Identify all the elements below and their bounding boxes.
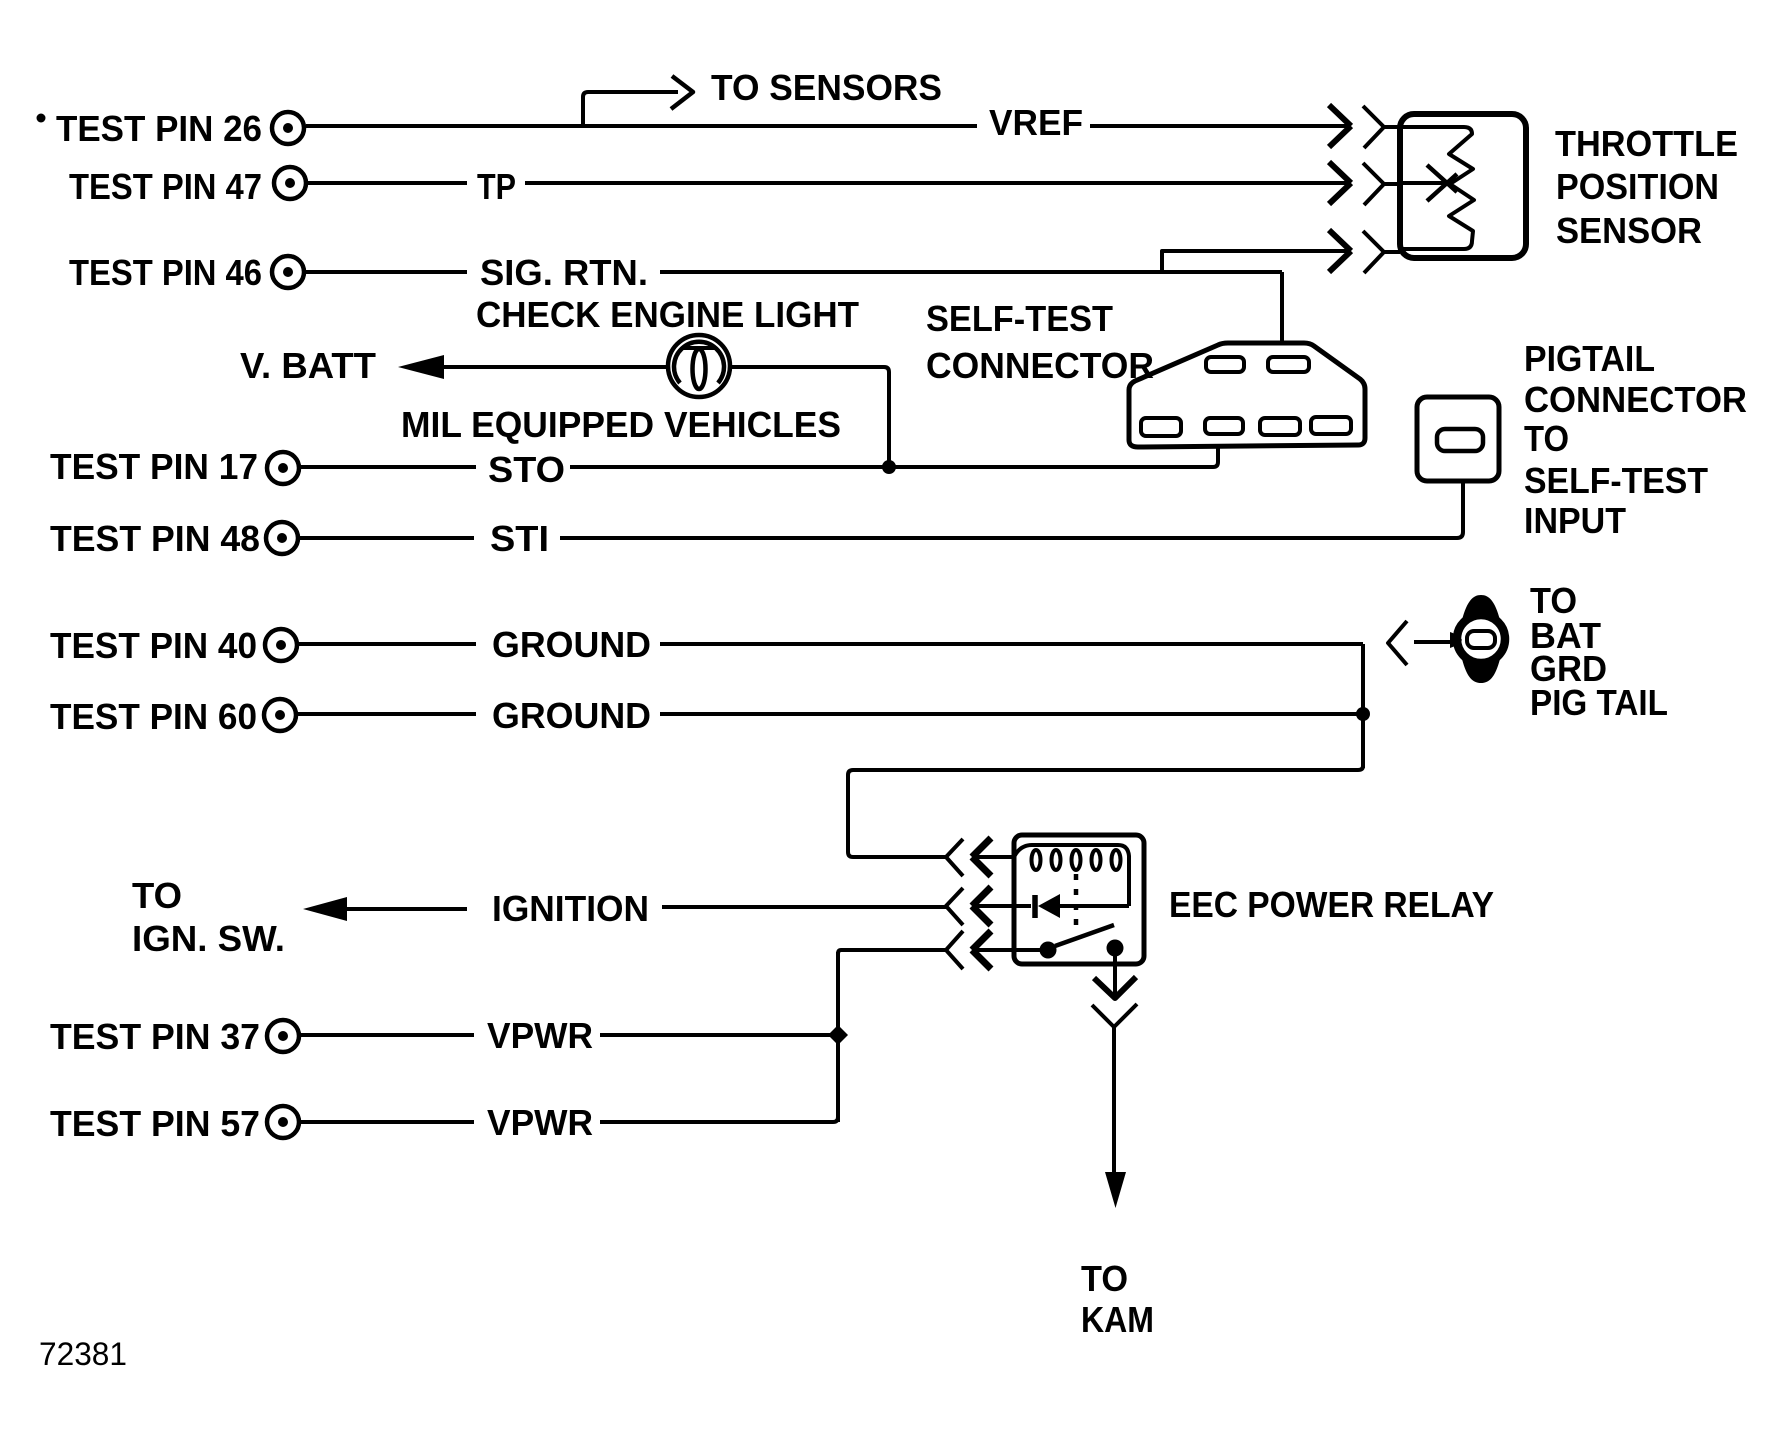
label STO <box>488 449 565 490</box>
svg-text:STO: STO <box>488 449 565 490</box>
svg-text:IGNITION: IGNITION <box>492 888 649 929</box>
wire TP right segment <box>525 181 1349 185</box>
junction STO / MIL <box>882 460 896 474</box>
svg-text:SELF-TEST: SELF-TEST <box>926 298 1113 339</box>
svg-text:CHECK ENGINE LIGHT: CHECK ENGINE LIGHT <box>476 294 859 335</box>
label SELF-TEST CONNECTOR <box>926 298 1154 386</box>
svg-text:TO: TO <box>1081 1258 1128 1299</box>
svg-text:PIGTAIL: PIGTAIL <box>1524 338 1655 379</box>
relay coil <box>1014 845 1129 906</box>
wire VPWR to relay switch <box>838 950 946 954</box>
junction ground bus <box>1356 707 1370 721</box>
wire SIG RTN left segment <box>306 270 467 274</box>
wire VPWR bus vertical <box>836 952 840 1122</box>
wire ground bus to relay coil <box>848 766 1363 857</box>
figure number 72381 <box>39 1336 127 1372</box>
svg-text:TEST PIN 17: TEST PIN 17 <box>50 446 258 487</box>
label VPWR <box>487 1015 593 1056</box>
wire lamp to STO junction <box>730 367 889 462</box>
label MIL EQUIPPED VEHICLES <box>401 404 841 445</box>
wire GROUND 40 right segment <box>660 642 1363 646</box>
test point TEST PIN 60 <box>50 696 296 737</box>
svg-text:TO: TO <box>132 875 182 916</box>
wire GROUND 60 right segment <box>660 712 1360 716</box>
test point TEST PIN 47 <box>69 166 306 207</box>
wire VPWR 37 right segment <box>600 1033 834 1037</box>
wire STI right segment <box>560 483 1463 538</box>
relay ignition connector <box>946 887 1031 925</box>
wire VPWR 57 left segment <box>301 1120 474 1124</box>
svg-text:TEST PIN 57: TEST PIN 57 <box>50 1103 260 1144</box>
label STI <box>490 518 549 559</box>
wire GROUND 60 left segment <box>298 712 476 716</box>
wire down to self-test connector <box>1280 272 1284 344</box>
relay switch <box>1040 925 1124 959</box>
test point TEST PIN 46 <box>69 252 304 293</box>
wire ground bus vertical <box>1361 644 1365 768</box>
label TO IGN. SW. <box>132 875 285 959</box>
wire branch up to TPS <box>1162 251 1349 272</box>
self-test connector <box>1129 343 1365 447</box>
svg-text:TEST PIN 46: TEST PIN 46 <box>69 252 262 293</box>
svg-text:KAM: KAM <box>1081 1299 1154 1340</box>
svg-text:SIG. RTN.: SIG. RTN. <box>480 252 648 293</box>
footnote dot <box>37 114 46 123</box>
svg-text:VPWR: VPWR <box>487 1102 593 1143</box>
label PIGTAIL CONNECTOR TO SELF-TEST INPUT <box>1524 338 1747 541</box>
wire SIG RTN right segment <box>660 270 1282 274</box>
connector arrow VREF <box>1329 105 1351 147</box>
connector chevron SIG RTN <box>1363 231 1400 273</box>
throttle position sensor <box>1400 114 1526 258</box>
svg-text:IGN. SW.: IGN. SW. <box>132 918 285 959</box>
test point TEST PIN 26 <box>56 108 304 149</box>
svg-text:STI: STI <box>490 518 549 559</box>
label GROUND <box>492 695 651 736</box>
svg-text:VPWR: VPWR <box>487 1015 593 1056</box>
svg-text:SELF-TEST: SELF-TEST <box>1524 460 1708 501</box>
svg-text:VREF: VREF <box>989 102 1083 143</box>
wire chevron to pigtail <box>1414 640 1452 644</box>
label VREF <box>989 102 1083 143</box>
svg-text:TO SENSORS: TO SENSORS <box>711 67 942 108</box>
battery ground pigtail <box>1450 595 1505 683</box>
wire STO right segment <box>570 448 1218 467</box>
connector arrow TP <box>1329 162 1351 204</box>
label TO SENSORS <box>711 67 942 108</box>
wire VPWR 37 left segment <box>301 1033 474 1037</box>
test point TEST PIN 40 <box>50 625 297 666</box>
svg-text:INPUT: INPUT <box>1524 500 1626 541</box>
label TP <box>477 166 516 207</box>
EEC power relay box <box>1014 835 1144 964</box>
svg-text:TEST PIN 47: TEST PIN 47 <box>69 166 262 207</box>
wire IGNITION right segment <box>662 905 946 909</box>
label CHECK ENGINE LIGHT <box>476 294 859 335</box>
label GROUND <box>492 624 651 665</box>
svg-text:EEC POWER RELAY: EEC POWER RELAY <box>1169 884 1494 925</box>
test point TEST PIN 57 <box>50 1103 299 1144</box>
label V. BATT <box>240 345 376 386</box>
junction VPWR <box>828 1025 848 1045</box>
wire VPWR 57 right segment <box>600 1117 838 1122</box>
svg-text:GROUND: GROUND <box>492 695 651 736</box>
diode <box>1035 894 1129 918</box>
svg-text:POSITION: POSITION <box>1556 166 1719 207</box>
label TO BAT GRD PIG TAIL <box>1530 580 1668 723</box>
svg-text:TP: TP <box>477 166 516 207</box>
relay output to KAM <box>1092 955 1137 1208</box>
connector arrow SIG RTN <box>1329 230 1351 272</box>
wire TP left segment <box>308 181 467 185</box>
svg-text:TEST PIN 26: TEST PIN 26 <box>56 108 262 149</box>
svg-text:MIL EQUIPPED VEHICLES: MIL EQUIPPED VEHICLES <box>401 404 841 445</box>
label THROTTLE POSITION SENSOR <box>1555 123 1738 251</box>
svg-text:TEST PIN 37: TEST PIN 37 <box>50 1016 260 1057</box>
svg-text:TO: TO <box>1524 418 1569 459</box>
relay switch connector <box>946 931 1040 969</box>
wire V.BATT to lamp <box>440 365 669 369</box>
label EEC POWER RELAY <box>1169 884 1494 925</box>
wire VREF right segment <box>1090 124 1349 128</box>
arrow to sensors <box>671 76 693 109</box>
connector chevron VREF <box>1363 106 1400 148</box>
svg-text:SENSOR: SENSOR <box>1556 210 1702 251</box>
svg-text:TEST PIN 40: TEST PIN 40 <box>50 625 257 666</box>
svg-text:CONNECTOR: CONNECTOR <box>926 345 1154 386</box>
check engine lamp <box>668 335 730 397</box>
chevron to bat grd pigtail <box>1388 621 1407 665</box>
label IGNITION <box>492 888 649 929</box>
svg-text:TEST PIN 48: TEST PIN 48 <box>50 518 260 559</box>
svg-text:TEST PIN 60: TEST PIN 60 <box>50 696 257 737</box>
svg-text:PIG TAIL: PIG TAIL <box>1530 682 1668 723</box>
relay coil connector <box>946 838 1014 876</box>
svg-text:V. BATT: V. BATT <box>240 345 376 386</box>
wire STO left segment <box>301 465 476 469</box>
label SIG. RTN. <box>480 252 648 293</box>
test point TEST PIN 48 <box>50 518 298 559</box>
relay actuator dashed link <box>1074 874 1079 932</box>
test point TEST PIN 17 <box>50 446 299 487</box>
arrow to V.BATT <box>398 355 444 379</box>
wire VREF left segment <box>306 124 977 128</box>
svg-text:72381: 72381 <box>39 1336 127 1372</box>
pigtail connector to self-test input <box>1417 397 1499 481</box>
label VPWR <box>487 1102 593 1143</box>
connector chevron TP <box>1363 163 1400 205</box>
svg-text:GROUND: GROUND <box>492 624 651 665</box>
label TO KAM <box>1081 1258 1154 1340</box>
wire STI left segment <box>300 536 474 540</box>
test point TEST PIN 37 <box>50 1016 299 1057</box>
wire GROUND 40 left segment <box>299 642 476 646</box>
svg-text:THROTTLE: THROTTLE <box>1555 123 1738 164</box>
wire IGNITION left segment <box>343 907 467 911</box>
wire branch to sensors <box>583 92 678 126</box>
svg-text:CONNECTOR: CONNECTOR <box>1524 379 1747 420</box>
arrow to ignition switch <box>303 897 347 921</box>
